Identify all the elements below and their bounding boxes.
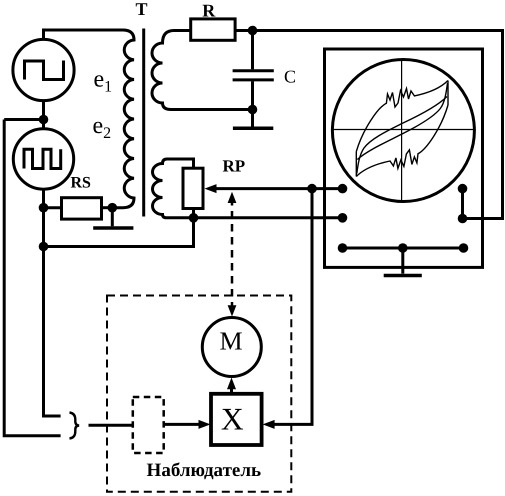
svg-text:T: T (135, 0, 147, 19)
svg-text:RS: RS (71, 175, 92, 192)
svg-text:e1: e1 (94, 67, 113, 96)
svg-text:M: M (219, 327, 242, 356)
svg-text:e2: e2 (93, 113, 112, 142)
svg-text:X: X (221, 402, 244, 437)
svg-text:R: R (202, 0, 216, 20)
svg-text:RP: RP (223, 156, 246, 175)
svg-text:C: C (284, 66, 296, 86)
svg-text:Наблюдатель: Наблюдатель (147, 460, 262, 481)
